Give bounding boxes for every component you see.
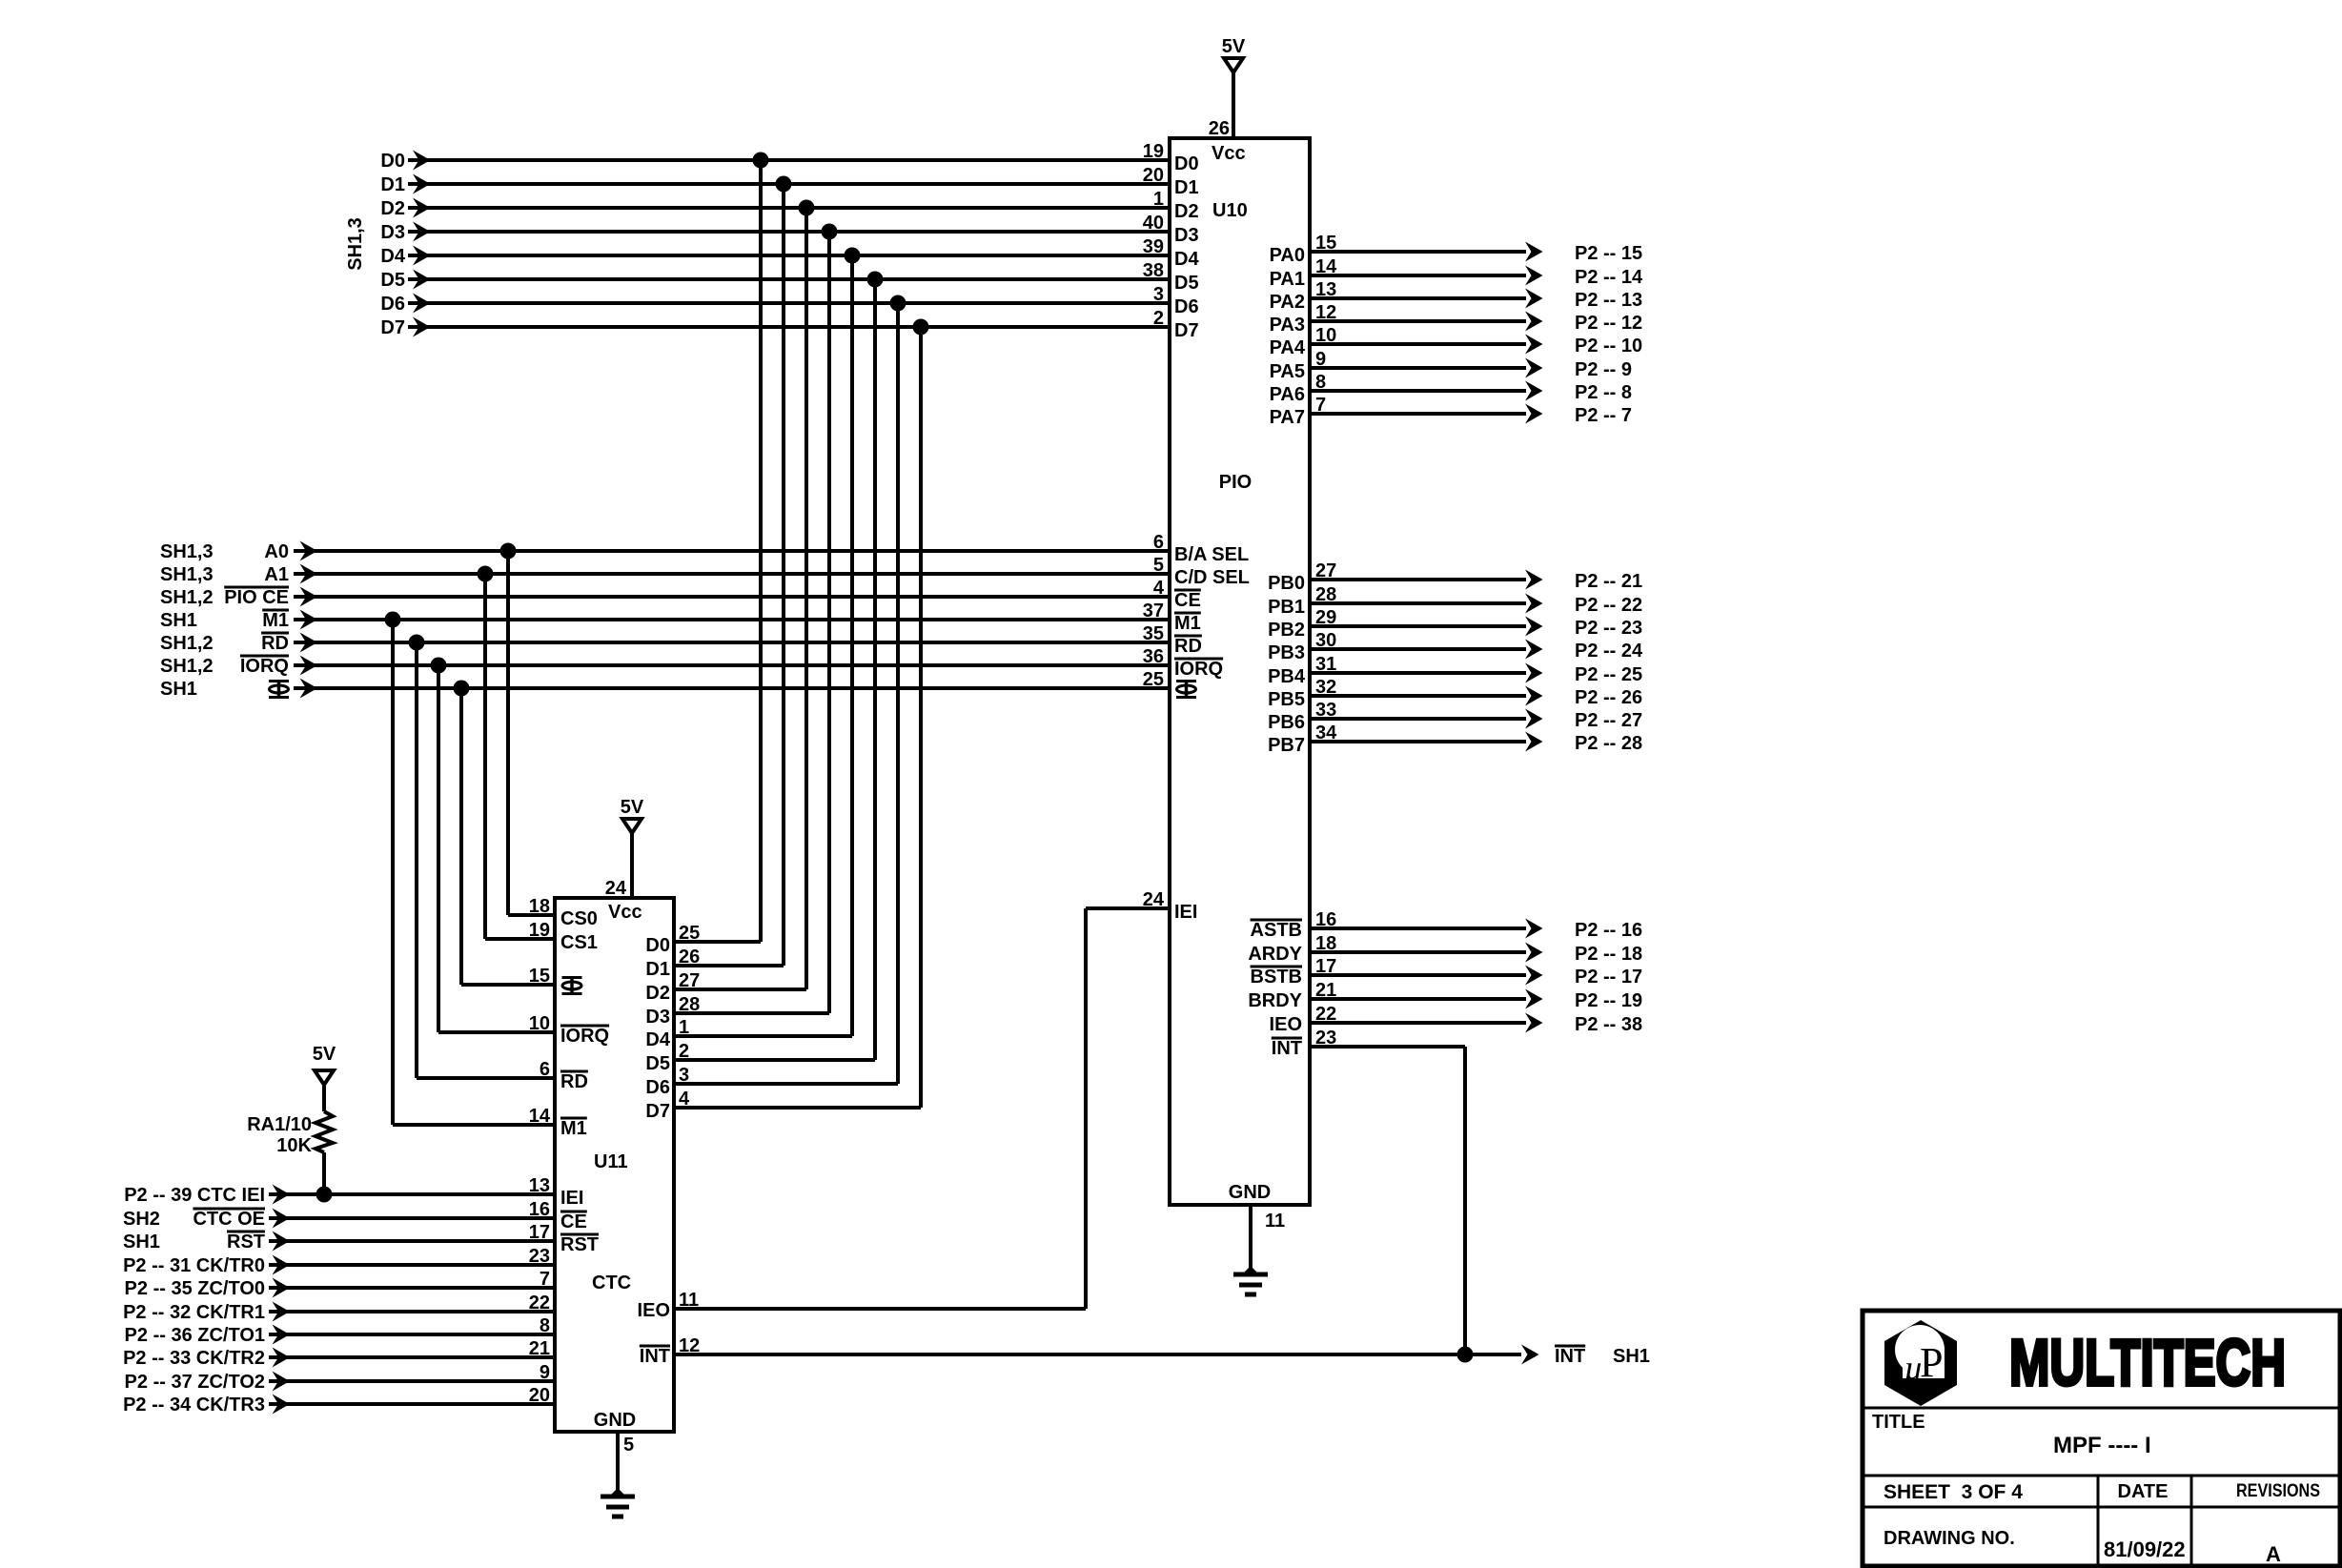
svg-text:D5: D5 [645, 1053, 670, 1074]
wire D3 from input to U10 pin 40 [408, 230, 1170, 234]
svg-text:P2 -- 27: P2 -- 27 [1575, 710, 1642, 731]
wire row to U11 [269, 1192, 555, 1196]
svg-text:24: 24 [605, 878, 627, 899]
U10 pin 3 number [1153, 284, 1164, 305]
svg-text:14: 14 [529, 1106, 551, 1127]
svg-text:SH1: SH1 [160, 679, 197, 700]
svg-text:CS0: CS0 [560, 908, 598, 929]
U11 pin 28 number [679, 994, 700, 1015]
net label P2 -- 37 ZC/TO2 input with arrow [125, 1372, 290, 1394]
U10 pin 25 number [1143, 669, 1164, 690]
wire row to U11 [269, 1310, 555, 1313]
U11 pin label RD [560, 1071, 588, 1092]
svg-text:TITLE: TITLE [1872, 1412, 1925, 1433]
wire PA0 output from U10 pin 15 with arrow [1310, 242, 1543, 262]
svg-text:MPF ---- I: MPF ---- I [2053, 1433, 2151, 1458]
wire PB7 output from U10 pin 34 with arrow [1310, 732, 1543, 752]
U10 pin 40 number [1143, 213, 1164, 234]
svg-text:IEO: IEO [638, 1300, 670, 1321]
wire row to U11 [269, 1379, 555, 1383]
svg-text:D1: D1 [380, 174, 405, 195]
title block revision A [2266, 1542, 2281, 1566]
U10 pin label C/D SEL [1174, 567, 1250, 588]
wire D1 from input to U10 pin 20 [408, 182, 1170, 186]
net label P2 -- 23 [1575, 618, 1642, 639]
junction D3 bus tap [822, 224, 838, 240]
junction D5 bus tap [867, 272, 884, 288]
svg-text:4: 4 [1153, 578, 1165, 599]
U11 pin 19 number [529, 920, 550, 941]
svg-text:P: P [1920, 1339, 1943, 1386]
svg-text:P2 -- 18: P2 -- 18 [1575, 944, 1642, 965]
svg-text:5: 5 [623, 1435, 634, 1456]
U10 pin label D2 [1174, 201, 1199, 222]
wire D4 from input to U10 pin 39 [408, 254, 1170, 257]
U11 pin 17 number [529, 1222, 550, 1243]
svg-text:28: 28 [1315, 584, 1336, 605]
U11 pin label PHI [562, 978, 582, 994]
svg-text:8: 8 [1315, 372, 1326, 393]
wire D0 from input to U10 pin 19 [408, 158, 1170, 162]
wire M1 row to U10 pin 37 [294, 618, 1170, 621]
svg-text:IEI: IEI [1174, 902, 1197, 923]
svg-text:10: 10 [1315, 325, 1336, 346]
net label P2 -- 34 CK/TR3 input with arrow [123, 1395, 290, 1416]
svg-text:P2 -- 34 CK/TR3: P2 -- 34 CK/TR3 [123, 1395, 265, 1415]
svg-text:D5: D5 [380, 270, 405, 291]
svg-text:7: 7 [1315, 395, 1326, 416]
U10 pin 27 number [1315, 560, 1336, 581]
wire PA1 output from U10 pin 14 with arrow [1310, 266, 1543, 286]
U11 pin label D1 [645, 959, 670, 980]
svg-text:D4: D4 [380, 246, 405, 267]
svg-text:5: 5 [1153, 555, 1164, 576]
node D7 input (SH1,3) with arrow [380, 317, 430, 339]
U10 pin 12 number [1315, 302, 1336, 323]
U11 pin label M1 [560, 1118, 587, 1139]
svg-text:P2 -- 16: P2 -- 16 [1575, 920, 1642, 941]
wire IORQ row to U10 pin 36 [294, 663, 1170, 667]
net label SH1,2 / RD input with arrow [160, 633, 317, 655]
U10 pin 22 number [1315, 1004, 1336, 1025]
svg-text:SH1: SH1 [123, 1232, 160, 1252]
svg-text:31: 31 [1315, 654, 1336, 675]
U10 pin label D5 [1174, 273, 1199, 294]
wire BSTB output from U10 pin 17 with arrow [1310, 966, 1543, 986]
wire D2 from input to U10 pin 1 [408, 206, 1170, 210]
svg-text:1: 1 [1153, 189, 1164, 210]
svg-text:D2: D2 [1174, 201, 1199, 222]
U11 pin 11 number [679, 1290, 699, 1311]
wire INT net from U11 pin 12 to sheet output [674, 1345, 1539, 1365]
svg-text:16: 16 [1315, 909, 1336, 930]
U10 pin label PA2 [1270, 292, 1305, 313]
svg-text:A0: A0 [264, 541, 289, 562]
U10 pin 16 number [1315, 909, 1336, 930]
svg-text:6: 6 [1153, 532, 1164, 553]
U10 pin label ARDY [1248, 944, 1302, 965]
svg-text:D4: D4 [645, 1029, 670, 1050]
svg-text:3: 3 [679, 1065, 689, 1086]
junction D1 bus tap [776, 176, 792, 193]
U10 pin 32 number [1315, 677, 1336, 698]
wire PIO CE row to U10 pin 4 [294, 595, 1170, 599]
svg-text:17: 17 [1315, 956, 1336, 977]
U10 pin 24 number [1143, 889, 1165, 910]
svg-text:CTC: CTC [592, 1273, 631, 1293]
wire RD branch down to U11 [417, 642, 555, 1078]
power 5V supply symbol at RA1/10 [313, 1044, 336, 1111]
svg-text:P2 -- 9: P2 -- 9 [1575, 359, 1632, 380]
svg-text:14: 14 [1315, 256, 1337, 277]
svg-text:81/09/22: 81/09/22 [2104, 1537, 2186, 1561]
wire resistor to CTC IEI row [322, 1152, 326, 1194]
svg-text:INT: INT [1272, 1038, 1302, 1059]
wire U10 INT (pin 23) down to INT net [1310, 1047, 1465, 1354]
net label P2 -- 19 [1575, 990, 1642, 1011]
wire PA3 output from U10 pin 12 with arrow [1310, 312, 1543, 332]
svg-text:BSTB: BSTB [1251, 967, 1302, 988]
junction A1 branch tap [478, 566, 494, 582]
node D1 input (SH1,3) with arrow [380, 174, 430, 196]
U10 pin 20 number [1143, 165, 1164, 186]
svg-text:PA3: PA3 [1270, 315, 1305, 336]
net label P2 -- 10 [1575, 336, 1642, 356]
U10 pin 21 number [1315, 980, 1336, 1001]
svg-text:P2 -- 24: P2 -- 24 [1575, 641, 1643, 662]
resistor RA1/10 10K [247, 1111, 333, 1156]
svg-text:38: 38 [1143, 260, 1164, 281]
wire PA4 output from U10 pin 10 with arrow [1310, 335, 1543, 355]
svg-text:13: 13 [1315, 279, 1336, 300]
svg-text:MULTITECH: MULTITECH [2009, 1326, 2286, 1399]
svg-text:D5: D5 [1174, 273, 1199, 294]
U11 pin 3 number [679, 1065, 689, 1086]
svg-text:33: 33 [1315, 700, 1336, 721]
U11 pin 10 number [529, 1013, 550, 1034]
svg-text:CE: CE [1174, 590, 1201, 611]
svg-text:PA2: PA2 [1270, 292, 1305, 313]
U10 pin label PA1 [1270, 269, 1305, 290]
svg-text:PB5: PB5 [1268, 689, 1305, 710]
svg-text:30: 30 [1315, 630, 1336, 651]
U10 pin 1 number [1153, 189, 1164, 210]
svg-text:P2 -- 21: P2 -- 21 [1575, 571, 1642, 592]
U10 pin 5 number [1153, 555, 1164, 576]
svg-text:CS1: CS1 [560, 932, 598, 953]
svg-text:27: 27 [1315, 560, 1336, 581]
wire ASTB output from U10 pin 16 with arrow [1310, 919, 1543, 939]
title block date 81/09/22 [2104, 1537, 2186, 1561]
svg-text:23: 23 [1315, 1028, 1336, 1049]
svg-text:15: 15 [1315, 233, 1336, 254]
svg-text:B/A SEL: B/A SEL [1174, 544, 1249, 565]
power 5V supply symbol at U10 Vcc [1222, 36, 1246, 138]
svg-text:P2 -- 14: P2 -- 14 [1575, 267, 1643, 288]
svg-text:REVISIONS: REVISIONS [2236, 1481, 2320, 1501]
net label SH1,3 / A1 input with arrow [160, 564, 317, 586]
U10 pin label ASTB [1251, 920, 1302, 941]
svg-text:18: 18 [529, 896, 550, 917]
svg-text:D1: D1 [1174, 177, 1199, 198]
U10 pin label BSTB [1251, 967, 1302, 988]
U11 pin 1 number [679, 1017, 689, 1038]
U11 pin 26 number [679, 947, 700, 967]
U10 pin label PB1 [1268, 597, 1305, 618]
wire U10 IEI (pin 24) to U11 IEO [674, 908, 1170, 1309]
wire row to U11 [269, 1333, 555, 1336]
U11 pin label IEI [560, 1188, 583, 1209]
U11 pin 24 number [605, 878, 627, 899]
net label P2 -- 36 ZC/TO1 input with arrow [125, 1325, 290, 1347]
U10 pin 15 number [1315, 233, 1336, 254]
svg-text:PA1: PA1 [1270, 269, 1305, 290]
svg-text:26: 26 [679, 947, 700, 967]
U11 pin 4 number [679, 1089, 690, 1110]
svg-text:26: 26 [1209, 118, 1230, 139]
svg-text:SH1,3: SH1,3 [160, 564, 214, 585]
svg-text:37: 37 [1143, 601, 1164, 621]
svg-text:PA6: PA6 [1270, 384, 1305, 405]
svg-text:RST: RST [227, 1232, 265, 1252]
U11 pin label CS1 [560, 932, 598, 953]
wire BRDY output from U10 pin 21 with arrow [1310, 989, 1543, 1009]
wire IEO output from U10 pin 22 with arrow [1310, 1013, 1543, 1033]
junction D2 bus tap [799, 200, 815, 216]
svg-text:DRAWING NO.: DRAWING NO. [1884, 1528, 2015, 1549]
junction A0 branch tap [500, 543, 517, 560]
svg-text:PA5: PA5 [1270, 361, 1305, 382]
svg-text:BRDY: BRDY [1248, 990, 1302, 1011]
wire PB6 output from U10 pin 33 with arrow [1310, 709, 1543, 729]
U11 pin 27 number [679, 970, 700, 991]
U10 pin 33 number [1315, 700, 1336, 721]
U10 pin 19 number [1143, 141, 1164, 162]
svg-text:PA7: PA7 [1270, 407, 1305, 428]
svg-text:19: 19 [1143, 141, 1164, 162]
U10 pin 7 number [1315, 395, 1326, 416]
wire PB0 output from U10 pin 27 with arrow [1310, 570, 1543, 590]
net label P2 -- 17 [1575, 967, 1642, 988]
svg-text:D6: D6 [1174, 296, 1199, 317]
svg-text:PB3: PB3 [1268, 642, 1305, 663]
svg-text:P2 -- 32 CK/TR1: P2 -- 32 CK/TR1 [123, 1302, 265, 1323]
junction D6 bus tap [890, 295, 906, 312]
svg-text:SH1,2: SH1,2 [160, 656, 214, 677]
net label P2 -- 39 CTC IEI input with arrow [124, 1185, 290, 1207]
svg-text:P2 -- 10: P2 -- 10 [1575, 336, 1642, 356]
svg-text:11: 11 [1265, 1211, 1285, 1232]
U10 pin label RD [1174, 636, 1202, 657]
U11 pin label D0 [645, 935, 670, 956]
svg-text:D0: D0 [1174, 153, 1199, 174]
U10 pin 38 number [1143, 260, 1164, 281]
svg-text:2: 2 [1153, 308, 1164, 329]
net label P2 -- 21 [1575, 571, 1642, 592]
U11 pin 14 number [529, 1106, 551, 1127]
net label P2 -- 22 [1575, 595, 1642, 616]
wire D6 branch down to U11 D6 [674, 303, 898, 1084]
svg-text:20: 20 [1143, 165, 1164, 186]
U10 pin 26 number [1209, 118, 1230, 139]
title block SHEET 3 OF 4 [1884, 1481, 2023, 1503]
U11 pin 15 number [529, 966, 550, 987]
svg-text:SH1,2: SH1,2 [160, 587, 214, 608]
svg-text:D4: D4 [1174, 249, 1199, 270]
U10 pin 6 number [1153, 532, 1164, 553]
svg-text:4: 4 [679, 1089, 690, 1110]
U10 pin 35 number [1143, 623, 1164, 644]
node D4 input (SH1,3) with arrow [380, 246, 430, 268]
U10 pin 36 number [1143, 646, 1164, 667]
U10 pin label PB3 [1268, 642, 1305, 663]
svg-text:PIO: PIO [1219, 472, 1252, 493]
svg-text:P2 -- 22: P2 -- 22 [1575, 595, 1642, 616]
node D0 input (SH1,3) with arrow [380, 151, 430, 173]
svg-text:5V: 5V [621, 797, 644, 818]
svg-text:15: 15 [529, 966, 550, 987]
wire D6 from input to U10 pin 3 [408, 301, 1170, 305]
svg-text:PB7: PB7 [1268, 735, 1305, 756]
svg-text:CE: CE [560, 1212, 587, 1232]
logo Multitech uP hexagon [1884, 1320, 1957, 1406]
svg-text:28: 28 [679, 994, 700, 1015]
node D5 input (SH1,3) with arrow [380, 270, 430, 292]
svg-text:RST: RST [560, 1234, 599, 1255]
net label SH1,3 / A0 input with arrow [160, 541, 317, 563]
wire D5 branch down to U11 D5 [674, 279, 875, 1060]
svg-text:12: 12 [1315, 302, 1336, 323]
net label P2 -- 38 [1575, 1014, 1642, 1035]
net label P2 -- 28 [1575, 733, 1642, 754]
U10 pin label D4 [1174, 249, 1199, 270]
wire A0 branch down to U11 [508, 551, 555, 915]
U10 pin 9 number [1315, 349, 1326, 370]
U10 pin 37 number [1143, 601, 1164, 621]
wire A1 branch down to U11 [485, 574, 555, 939]
net label P2 -- 9 [1575, 359, 1632, 380]
net label P2 -- 8 [1575, 382, 1632, 403]
svg-text:32: 32 [1315, 677, 1336, 698]
U10 pin label D7 [1174, 320, 1199, 341]
svg-text:D3: D3 [645, 1007, 670, 1028]
svg-text:U10: U10 [1212, 200, 1248, 221]
U10 pin label PB2 [1268, 620, 1305, 641]
net label P2 -- 14 [1575, 267, 1643, 288]
svg-text:6: 6 [540, 1059, 550, 1080]
svg-text:18: 18 [1315, 933, 1336, 954]
junction M1 branch tap [385, 612, 401, 628]
svg-text:P2 -- 39 CTC IEI: P2 -- 39 CTC IEI [124, 1185, 265, 1206]
U10 pin 18 number [1315, 933, 1336, 954]
svg-text:P2 -- 13: P2 -- 13 [1575, 290, 1642, 311]
wire D5 from input to U10 pin 38 [408, 277, 1170, 281]
svg-text:10: 10 [529, 1013, 550, 1034]
wire D1 branch down to U11 D1 [674, 184, 784, 966]
U11 pin 5 number [623, 1435, 634, 1456]
net label P2 -- 16 [1575, 920, 1642, 941]
net label P2 -- 32 CK/TR1 input with arrow [123, 1302, 290, 1324]
wire PB4 output from U10 pin 31 with arrow [1310, 663, 1543, 683]
svg-text:1: 1 [679, 1017, 689, 1038]
U11 pin label D3 [645, 1007, 670, 1028]
wire PB1 output from U10 pin 28 with arrow [1310, 594, 1543, 614]
U10 pin label PA4 [1270, 337, 1306, 358]
U10 pin label BRDY [1248, 990, 1302, 1011]
U10 pin label PA3 [1270, 315, 1305, 336]
svg-text:D1: D1 [645, 959, 670, 980]
U10 pin label D3 [1174, 225, 1199, 246]
svg-text:GND: GND [594, 1410, 636, 1431]
U10 pin label IORQ [1174, 659, 1223, 680]
wire PA2 output from U10 pin 13 with arrow [1310, 289, 1543, 309]
net label P2 -- 7 [1575, 405, 1632, 426]
net label P2 -- 12 [1575, 313, 1642, 334]
svg-text:IEO: IEO [1270, 1014, 1302, 1035]
svg-text:24: 24 [1143, 889, 1165, 910]
svg-text:P2 -- 12: P2 -- 12 [1575, 313, 1642, 334]
title block REVISIONS label [2236, 1481, 2320, 1501]
junction resistor / CTC IEI [316, 1187, 333, 1203]
ground symbol at U11 pin 5 [601, 1432, 635, 1517]
svg-text:A: A [2266, 1542, 2281, 1566]
svg-text:PB0: PB0 [1268, 573, 1305, 594]
wire PA7 output from U10 pin 7 with arrow [1310, 404, 1543, 424]
net label SH1,2 / IORQ input with arrow [160, 656, 317, 678]
svg-text:Vcc: Vcc [1212, 143, 1246, 164]
svg-text:PB2: PB2 [1268, 620, 1305, 641]
net label P2 -- 25 [1575, 664, 1642, 685]
U10 pin 8 number [1315, 372, 1326, 393]
U10 pin label PB5 [1268, 689, 1305, 710]
U11 pin label D5 [645, 1053, 670, 1074]
svg-text:PB4: PB4 [1268, 666, 1306, 687]
svg-text:PA0: PA0 [1270, 245, 1305, 266]
wire IORQ branch down to U11 [438, 665, 555, 1032]
svg-text:36: 36 [1143, 646, 1164, 667]
IC U11 Z80 CTC body [555, 898, 674, 1432]
U11 pin 22 number [529, 1293, 550, 1313]
svg-text:RD: RD [560, 1071, 588, 1092]
svg-text:RD: RD [1174, 636, 1202, 657]
svg-text:PIO CE: PIO CE [224, 587, 289, 608]
svg-text:9: 9 [1315, 349, 1326, 370]
title block frame [1863, 1311, 2340, 1566]
U11 pin label CS0 [560, 908, 598, 929]
U10 pin label PA5 [1270, 361, 1305, 382]
svg-text:SH1,3: SH1,3 [160, 541, 214, 562]
wire PHI clock row to U10 pin 25 [294, 686, 1170, 690]
wire row to U11 [269, 1263, 555, 1267]
net label P2 -- 31 CK/TR0 input with arrow [123, 1255, 290, 1277]
svg-text:SH1: SH1 [160, 610, 197, 631]
U10 pin label INT [1272, 1038, 1302, 1059]
svg-text:D7: D7 [1174, 320, 1199, 341]
svg-text:D3: D3 [380, 222, 405, 243]
ground symbol at U10 pin 11 [1233, 1205, 1268, 1294]
svg-text:SH1,2: SH1,2 [160, 633, 214, 654]
junction INT net [1457, 1347, 1474, 1363]
U10 pin label PA0 [1270, 245, 1305, 266]
svg-text:M1: M1 [1174, 613, 1201, 634]
wire PA5 output from U10 pin 9 with arrow [1310, 358, 1543, 378]
wire PB5 output from U10 pin 32 with arrow [1310, 686, 1543, 706]
title block DRAWING NO. label [1884, 1528, 2015, 1549]
junction D4 bus tap [845, 248, 861, 264]
U10 pin label PB6 [1268, 712, 1305, 733]
svg-text:P2 -- 15: P2 -- 15 [1575, 243, 1642, 264]
wire D7 from input to U10 pin 2 [408, 325, 1170, 329]
